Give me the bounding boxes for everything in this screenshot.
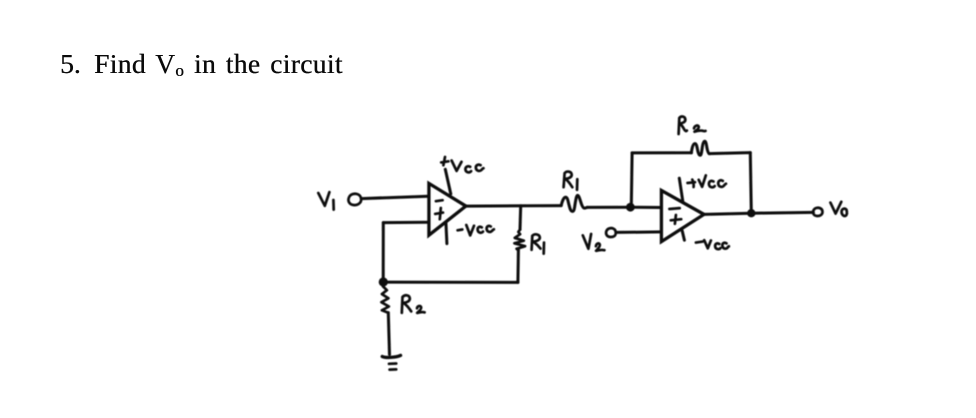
U1 plus sign <box>435 208 443 219</box>
op-amp U1 <box>429 183 466 235</box>
wire U2 output <box>704 212 813 214</box>
terminal V2 <box>606 228 616 237</box>
resistor R2 (vertical to ground) <box>381 286 389 312</box>
resistor R2 (feedback) <box>691 141 709 155</box>
U2 minus sign <box>669 207 679 211</box>
wire R1 to node B <box>587 206 630 209</box>
U2 +Vcc label <box>688 175 727 187</box>
resistor R1 (horizontal) <box>561 195 587 211</box>
R2 vertical label <box>402 295 425 313</box>
wire node B up (feedback riser) <box>630 153 634 207</box>
R1 vertical label <box>532 234 544 253</box>
wire R2 to ground <box>388 313 389 355</box>
wire feedback top right <box>709 153 750 154</box>
wire branch down to R1 vertical <box>519 206 523 230</box>
op-amp U2 <box>661 190 704 241</box>
R1 horizontal label <box>564 172 578 190</box>
U2 +Vcc pin line <box>679 178 683 201</box>
wire V2 to U2 plus input <box>617 230 662 234</box>
U1 +Vcc pin line <box>445 169 451 194</box>
wire node A up <box>382 223 385 282</box>
wire U1 output <box>466 204 561 208</box>
U2 plus sign <box>671 215 681 224</box>
node V2 label <box>583 234 605 251</box>
U1 +Vcc label <box>441 157 483 172</box>
title: problem statement <box>60 48 81 80</box>
terminal V1 <box>348 194 361 205</box>
U1 -Vcc label <box>458 225 494 235</box>
wire feedback right riser <box>750 153 751 214</box>
junction node C dot <box>747 209 755 217</box>
terminal Vo <box>813 208 822 216</box>
node Vo label <box>830 202 847 216</box>
node Vin label V1 <box>318 192 333 209</box>
wire R1 bottom down <box>516 250 520 282</box>
U1 -Vcc pin line <box>446 222 447 243</box>
wire to U1 plus input <box>383 221 429 224</box>
U1 minus sign <box>436 200 443 201</box>
junction node A dot <box>379 277 388 286</box>
U2 -Vcc label <box>696 240 729 249</box>
wire V1 to op-amp U1 input <box>362 196 429 198</box>
ground <box>382 355 400 357</box>
U2 -Vcc pin line <box>682 231 684 240</box>
junction node B dot <box>626 203 635 212</box>
R2 feedback label <box>679 117 706 134</box>
wire bottom feedback run <box>384 281 518 284</box>
wire feedback top left <box>632 151 691 154</box>
resistor R1 (vertical) <box>514 229 525 250</box>
wire node B to op-amp U2 input <box>630 206 661 209</box>
